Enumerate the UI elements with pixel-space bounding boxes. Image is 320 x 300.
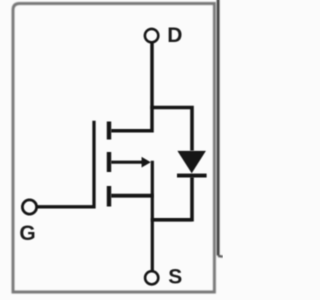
wire: source stub from bottom bar to vertical xyxy=(111,194,154,198)
channel bar (source segment) xyxy=(107,186,111,207)
diode D1 cathode bar xyxy=(177,174,207,178)
wire: source-side vertical from arrow corner down to S xyxy=(151,161,154,272)
terminal G circle xyxy=(22,200,36,214)
right edge dark line xyxy=(218,0,223,257)
border frame xyxy=(13,4,214,293)
wire: body arrow line from middle bar xyxy=(111,161,144,164)
terminal D circle xyxy=(145,29,158,42)
gate vertical line + wire from G terminal xyxy=(37,121,94,207)
wire: diode cathode lead xyxy=(190,177,194,222)
channel bar (body segment) xyxy=(107,152,111,172)
arrowhead of body arrow xyxy=(142,157,151,168)
channel bar (drain segment) xyxy=(107,122,111,140)
wire: bottom rail to diode cathode xyxy=(151,218,192,222)
wire: drain vertical + drain stub to top channel bar xyxy=(111,43,152,131)
diode D1 triangle (anode) xyxy=(177,151,206,173)
svg-text:G: G xyxy=(19,222,35,245)
svg-text:S: S xyxy=(168,266,182,289)
wire: diode top rail from drain wire to diode anode xyxy=(150,108,192,151)
terminal S circle xyxy=(145,271,158,284)
svg-text:D: D xyxy=(167,24,182,47)
small hook at end of right edge line xyxy=(218,255,223,258)
